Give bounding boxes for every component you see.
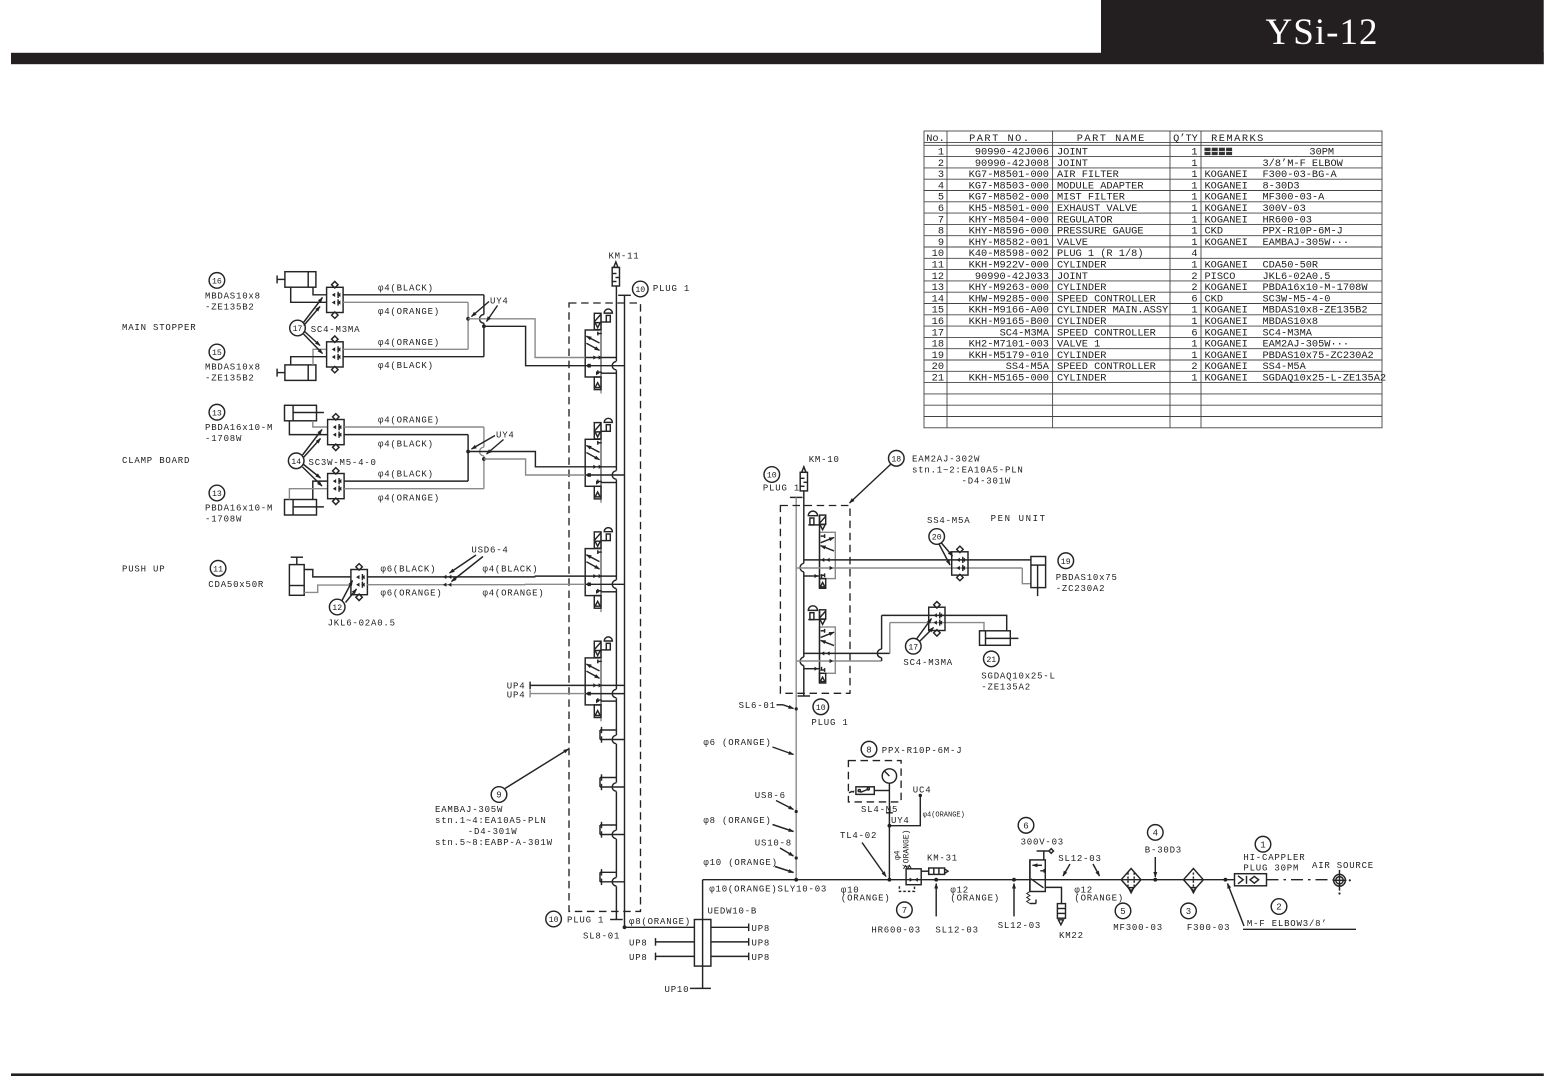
plug bottom of line 1	[610, 919, 623, 921]
svg-text:VALVE: VALVE	[1057, 237, 1088, 249]
wire cyl16 port A	[313, 287, 327, 295]
circled 15	[209, 344, 225, 360]
junction dot M-F elbow	[1224, 878, 1228, 882]
svg-text:stn.5~8:EABP-A-301W: stn.5~8:EABP-A-301W	[435, 838, 553, 848]
cylinder 16	[277, 272, 316, 288]
wire black bottom	[343, 356, 484, 358]
svg-text:4: 4	[1153, 829, 1158, 839]
svg-text:PPX-R10P-6M-J: PPX-R10P-6M-J	[882, 746, 963, 756]
svg-text:KM22: KM22	[1059, 931, 1084, 941]
svg-text:KOGANEI: KOGANEI	[1205, 305, 1248, 317]
svg-text:SC3W-M5-4-0: SC3W-M5-4-0	[309, 458, 377, 468]
svg-text:SL12-03: SL12-03	[998, 921, 1041, 931]
svg-text:-ZE135A2: -ZE135A2	[981, 683, 1031, 693]
svg-text:K40-M8598-002: K40-M8598-002	[969, 248, 1049, 260]
svg-text:JKL6-02A0.5: JKL6-02A0.5	[328, 618, 396, 628]
circled 10 top	[633, 281, 649, 297]
svg-text:KOGANEI: KOGANEI	[1205, 169, 1248, 181]
wire dash-dot to air source	[1267, 879, 1335, 881]
svg-text:10: 10	[549, 916, 559, 925]
svg-text:CKD: CKD	[1205, 293, 1224, 305]
header black title box	[1101, 0, 1544, 54]
wire UP8 right 3	[711, 955, 749, 957]
svg-text:No.: No.	[926, 133, 945, 145]
mist filter MF300-03	[1121, 869, 1141, 893]
svg-text:300V-03: 300V-03	[1263, 203, 1306, 215]
svg-text:3: 3	[1186, 907, 1191, 917]
svg-text:SC4-M3MA: SC4-M3MA	[311, 325, 361, 335]
SL12-03 marker 2	[1012, 878, 1016, 882]
wire: line 2 (plug header)	[624, 295, 626, 927]
cylinder 15	[277, 365, 316, 381]
svg-text:KH2-M7101-003: KH2-M7101-003	[969, 339, 1049, 351]
svg-text:3: 3	[938, 169, 944, 181]
svg-text:stn.1~2:EA10A5-PLN: stn.1~2:EA10A5-PLN	[912, 466, 1024, 476]
wire UP4 upper	[530, 684, 585, 686]
wire: valve 3 top port to supply line	[585, 575, 616, 577]
pressure switch	[849, 787, 874, 795]
wire cyl13a port A	[313, 421, 328, 427]
svg-text:M-F ELBOW3/8’: M-F ELBOW3/8’	[1247, 919, 1328, 929]
wire 8(ORANGE) SL8-01 to block	[625, 926, 695, 928]
svg-text:12: 12	[932, 271, 944, 283]
svg-text:φ4(ORANGE): φ4(ORANGE)	[923, 812, 965, 820]
svg-text:EAM2AJ-305W···: EAM2AJ-305W···	[1263, 339, 1350, 351]
svg-text:JOINT: JOINT	[1057, 271, 1088, 283]
wire black upper g2	[344, 434, 468, 436]
svg-text:UP8: UP8	[752, 924, 771, 934]
arrows 12 to controller	[342, 581, 353, 601]
wire: supply line 1 from KM-11 down	[615, 286, 617, 920]
svg-text:φ8(ORANGE): φ8(ORANGE)	[629, 917, 691, 927]
svg-text:CYLINDER: CYLINDER	[1057, 316, 1106, 328]
circled 12	[329, 599, 345, 615]
svg-text:1: 1	[1191, 180, 1197, 192]
svg-text:PLUG 1: PLUG 1	[763, 483, 800, 493]
svg-text:PPX-R10P-6M-J: PPX-R10P-6M-J	[1263, 226, 1343, 238]
svg-text:1: 1	[1260, 840, 1265, 850]
svg-text:KOGANEI: KOGANEI	[1205, 260, 1248, 272]
wire: valve 3 mid port through to plug header	[585, 583, 624, 585]
svg-text:17: 17	[932, 327, 944, 339]
circled 9	[491, 787, 507, 803]
svg-text:KG7-M8502-000: KG7-M8502-000	[969, 192, 1049, 204]
wire 6 ORANGE	[367, 584, 525, 586]
circled 17	[290, 320, 306, 336]
svg-text:1: 1	[1191, 226, 1197, 238]
wire UP4 lower	[530, 693, 585, 695]
wire cyl13b port B	[289, 489, 327, 500]
svg-text:SS4-M5A: SS4-M5A	[927, 516, 970, 526]
wire UP8 right 1	[711, 926, 749, 928]
svg-text:KKH-M922V-000: KKH-M922V-000	[969, 260, 1049, 272]
svg-text:SS4-M5A: SS4-M5A	[1006, 361, 1050, 373]
circled 19	[1058, 553, 1074, 569]
circled 21	[984, 651, 1000, 667]
svg-text:φ4(BLACK): φ4(BLACK)	[378, 283, 434, 293]
junction dot valve 2 mid	[587, 473, 591, 477]
svg-text:CDA50x50R: CDA50x50R	[208, 580, 264, 590]
wire: valve 1 bottom port	[601, 372, 616, 374]
svg-text:PLUG 1: PLUG 1	[567, 916, 604, 926]
junction dot valve 1 mid	[587, 364, 591, 368]
svg-text:3/8’M-F ELBOW: 3/8’M-F ELBOW	[1263, 158, 1344, 170]
speed controller 14a	[328, 414, 345, 451]
cylinder 19	[1031, 557, 1046, 597]
svg-text:KOGANEI: KOGANEI	[1205, 327, 1248, 339]
svg-text:6: 6	[1191, 327, 1197, 339]
svg-text:UP4: UP4	[507, 691, 526, 701]
svg-text:SPEED CONTROLLER: SPEED CONTROLLER	[1057, 327, 1156, 339]
wire black top (4BLACK)	[343, 294, 484, 296]
svg-text:KHY-M8582-001: KHY-M8582-001	[969, 237, 1049, 249]
junction dot UY4	[888, 824, 892, 828]
wire cyl11 port A	[304, 570, 351, 577]
svg-text:15: 15	[212, 349, 222, 358]
svg-text:KOGANEI: KOGANEI	[1205, 203, 1248, 215]
svg-text:KHY-M8596-000: KHY-M8596-000	[969, 226, 1049, 238]
wire: valve 1 top port to supply line	[585, 357, 616, 359]
svg-text:8: 8	[866, 745, 871, 755]
svg-text:6: 6	[1023, 821, 1028, 831]
svg-text:KOGANEI: KOGANEI	[1205, 339, 1248, 351]
plug top of line 2	[618, 294, 631, 296]
svg-text:20: 20	[932, 534, 942, 543]
svg-text:KOGANEI: KOGANEI	[1205, 180, 1248, 192]
svg-text:PBDAS10x75: PBDAS10x75	[1056, 573, 1118, 583]
svg-text:HR600-03: HR600-03	[871, 926, 921, 936]
svg-text:PBDA16x10-M: PBDA16x10-M	[205, 504, 273, 514]
svg-text:9: 9	[938, 237, 944, 249]
svg-text:KOGANEI: KOGANEI	[1205, 316, 1248, 328]
wire cyl13b port A	[313, 481, 328, 499]
circled 7	[897, 902, 913, 918]
svg-text:SGDAQ10x25-L: SGDAQ10x25-L	[981, 672, 1055, 682]
circled 10 (bottom plug)	[813, 699, 829, 715]
wire orange combined to valve2 mid	[484, 459, 585, 475]
svg-text:1: 1	[1191, 260, 1197, 272]
wire: valve 1 mid port through to plug header	[585, 365, 624, 367]
SL12-03 marker 1	[934, 878, 938, 882]
wire valve18-2 bottom port	[804, 668, 820, 670]
(1) hi-coupler	[1255, 836, 1271, 852]
svg-text:MF300-03-A: MF300-03-A	[1263, 192, 1326, 204]
svg-text:JOINT: JOINT	[1057, 147, 1088, 159]
svg-text:(ORANGE): (ORANGE)	[841, 894, 891, 904]
wire valve18-2 top port (black)	[804, 652, 890, 654]
svg-text:5: 5	[938, 192, 944, 204]
svg-text:Q’TY: Q’TY	[1173, 133, 1198, 145]
valve U4 (station 4)	[585, 637, 612, 722]
svg-text:10: 10	[932, 248, 944, 260]
black join vertical (hop at orange feed)	[483, 295, 485, 315]
KM22 silencer	[1045, 887, 1065, 924]
speed controller 12	[351, 564, 368, 601]
svg-text:CYLINDER MAIN.ASSY: CYLINDER MAIN.ASSY	[1057, 305, 1168, 317]
svg-text:1: 1	[1191, 214, 1197, 226]
orange join vertical g2 (hop)	[483, 427, 485, 447]
junction dot black	[482, 324, 486, 328]
svg-text:18: 18	[932, 339, 944, 351]
svg-text:8: 8	[938, 226, 944, 238]
svg-text:-ZC230A2: -ZC230A2	[1056, 584, 1106, 594]
svg-text:14: 14	[932, 293, 944, 305]
svg-text:KM-10: KM-10	[809, 455, 840, 465]
wire: valve 4 bottom port	[601, 700, 616, 702]
svg-text:16: 16	[932, 316, 944, 328]
svg-text:KOGANEI: KOGANEI	[1205, 214, 1248, 226]
svg-text:8-30D3: 8-30D3	[1263, 180, 1300, 192]
svg-text:USD6-4: USD6-4	[471, 545, 508, 555]
svg-text:TL4-02: TL4-02	[840, 831, 877, 841]
svg-text:1: 1	[1191, 350, 1197, 362]
svg-text:UY4: UY4	[490, 297, 509, 307]
wire upper black to cylinder 21	[882, 615, 1007, 630]
svg-text:MF300-03: MF300-03	[1113, 923, 1163, 933]
svg-text:CYLINDER: CYLINDER	[1057, 260, 1106, 272]
svg-text:KOGANEI: KOGANEI	[1205, 361, 1248, 373]
svg-text:PLUG 1: PLUG 1	[653, 284, 690, 294]
svg-text:φ4: φ4	[894, 850, 903, 860]
svg-text:SC4-M3MA: SC4-M3MA	[903, 658, 953, 668]
wire UP8 left 1	[656, 941, 695, 943]
svg-text:UP8: UP8	[752, 953, 771, 963]
svg-text:SPEED CONTROLLER: SPEED CONTROLLER	[1057, 293, 1156, 305]
svg-text:9: 9	[496, 791, 501, 801]
arrows 17 to controllers	[304, 298, 323, 323]
svg-text:10: 10	[635, 286, 645, 295]
svg-text:1: 1	[938, 147, 944, 159]
svg-text:PEN UNIT: PEN UNIT	[991, 514, 1047, 524]
svg-text:US8-6: US8-6	[755, 791, 786, 801]
svg-text:-ZE135B2: -ZE135B2	[205, 303, 255, 313]
svg-text:PRESSURE GAUGE: PRESSURE GAUGE	[1057, 226, 1144, 238]
gauge dashed box	[848, 761, 901, 802]
svg-text:PBDAS10x75-ZC230A2: PBDAS10x75-ZC230A2	[1263, 350, 1374, 362]
svg-text:SL12-03: SL12-03	[935, 926, 978, 936]
svg-text:φ4(BLACK): φ4(BLACK)	[378, 361, 434, 371]
junction dot orange	[466, 317, 470, 321]
svg-text:CKD: CKD	[1205, 226, 1224, 238]
KM-10 dashed box	[780, 506, 850, 694]
circled 10 bottom-left	[546, 911, 562, 927]
blank station 5	[600, 727, 625, 744]
KM-31 bleed	[921, 868, 948, 874]
wire main line	[703, 879, 1235, 881]
circled 18	[889, 451, 905, 467]
parts table	[924, 131, 1386, 428]
arrow 9 to manifold box	[505, 749, 569, 789]
svg-text:φ10(ORANGE)SLY10-03: φ10(ORANGE)SLY10-03	[709, 885, 827, 895]
wire UY4 branch to UC4	[889, 796, 920, 826]
svg-text:11: 11	[213, 565, 223, 574]
svg-text:PLUG 30PM: PLUG 30PM	[1243, 864, 1299, 874]
arrows 14 to controllers	[303, 430, 323, 456]
exhaust valve 300V-03	[1027, 849, 1054, 904]
wire black combined to valve2 top	[468, 452, 585, 467]
svg-text:φ4(ORANGE): φ4(ORANGE)	[378, 416, 440, 426]
wire 6 BLACK	[367, 576, 535, 578]
svg-text:10: 10	[816, 704, 826, 713]
svg-text:17: 17	[908, 643, 918, 652]
svg-text:1: 1	[1191, 169, 1197, 181]
svg-text:φ4(ORANGE): φ4(ORANGE)	[378, 338, 440, 348]
svg-text:18: 18	[891, 455, 901, 464]
svg-text:PLUG 1: PLUG 1	[811, 718, 848, 728]
speed controller SS4-M5A (20)	[952, 546, 968, 581]
svg-text:F300-03-BG-A: F300-03-BG-A	[1263, 169, 1338, 181]
svg-text:φ6 (ORANGE): φ6 (ORANGE)	[703, 738, 771, 748]
svg-text:2: 2	[1191, 361, 1197, 373]
riser black to SC4 controller line (hop over top port)	[881, 615, 883, 649]
svg-text:EAMBAJ-305W···: EAMBAJ-305W···	[1263, 237, 1350, 249]
svg-text:KKH-M5165-000: KKH-M5165-000	[969, 373, 1049, 385]
svg-text:(ORANGE): (ORANGE)	[1074, 894, 1124, 904]
wire valve18-1 top port (black) to pen unit	[804, 559, 1031, 561]
svg-text:HR600-03: HR600-03	[1263, 214, 1312, 226]
svg-text:PART NAME: PART NAME	[1077, 133, 1146, 145]
svg-text:11: 11	[932, 260, 944, 272]
circled 11	[210, 561, 226, 577]
wire black lower g2	[344, 480, 468, 482]
svg-text:SC4-M3MA: SC4-M3MA	[1263, 327, 1313, 339]
svg-text:PISCO: PISCO	[1205, 271, 1236, 283]
UEDW10-B block	[694, 920, 711, 967]
svg-text:19: 19	[932, 350, 944, 362]
svg-text:SGDAQ10x25-L-ZE135A2: SGDAQ10x25-L-ZE135A2	[1263, 373, 1387, 385]
circled 16	[209, 273, 225, 289]
USD6-4 fittings	[443, 575, 446, 579]
wire orange top (4ORANGE)	[343, 301, 468, 303]
wire hop on line1 at valve 1	[614, 361, 619, 370]
cylinder 13b	[285, 500, 324, 516]
svg-text:MIST FILTER: MIST FILTER	[1057, 192, 1125, 204]
svg-text:KM-11: KM-11	[608, 252, 639, 262]
corner dot line2	[623, 925, 627, 929]
svg-text:φ4(BLACK): φ4(BLACK)	[378, 470, 434, 480]
circled 5	[1115, 903, 1131, 919]
svg-text:SPEED CONTROLLER: SPEED CONTROLLER	[1057, 361, 1156, 373]
speed controller 17b	[327, 336, 344, 373]
svg-text:φ8 (ORANGE): φ8 (ORANGE)	[703, 816, 771, 826]
wire hop on line1 at valve 2	[614, 471, 619, 480]
svg-text:-1708W: -1708W	[205, 434, 242, 444]
wire into valve3 top	[535, 575, 585, 578]
svg-text:KOGANEI: KOGANEI	[1205, 350, 1248, 362]
(2) M-F elbow callout	[1271, 899, 1287, 915]
svg-text:CYLINDER: CYLINDER	[1057, 350, 1106, 362]
svg-text:EXHAUST VALVE: EXHAUST VALVE	[1057, 203, 1137, 215]
svg-text:1: 1	[1191, 147, 1197, 159]
svg-text:1: 1	[1191, 316, 1197, 328]
wire gauge drop	[888, 783, 890, 880]
circled 10 (KM-10 plug)	[764, 467, 780, 483]
wire black combined to valve1 mid	[484, 326, 585, 365]
svg-text:HI-CAPPLER: HI-CAPPLER	[1243, 853, 1305, 863]
svg-text:CYLINDER: CYLINDER	[1057, 373, 1106, 385]
circled 13 upper	[209, 404, 225, 420]
wire into valve3 mid	[526, 583, 586, 585]
blank station 8	[600, 869, 625, 886]
svg-text:14: 14	[291, 458, 301, 467]
valve 18-1 (station 1)	[808, 511, 835, 588]
svg-text:MBDAS10x8: MBDAS10x8	[1263, 316, 1319, 328]
svg-text:20: 20	[932, 361, 944, 373]
svg-text:B-30D3: B-30D3	[1145, 845, 1182, 855]
wire upper gray to cylinder 21	[890, 623, 984, 631]
wire: valve 4 top port to supply line	[585, 684, 624, 686]
KM-10 filter symbol	[800, 467, 807, 491]
svg-text:15: 15	[932, 305, 944, 317]
svg-text:KM-31: KM-31	[927, 854, 958, 864]
blank station 6	[600, 774, 625, 791]
svg-text:6: 6	[938, 203, 944, 215]
svg-text:SC3W-M5-4-0: SC3W-M5-4-0	[1263, 293, 1331, 305]
svg-text:UP8: UP8	[629, 953, 648, 963]
svg-text:21: 21	[932, 373, 944, 385]
circled 13 lower	[209, 485, 225, 501]
wire valve18-1 mid port (gray)	[796, 567, 1022, 569]
svg-text:(ORANGE): (ORANGE)	[950, 894, 1000, 904]
wire cyl15 port B	[291, 357, 327, 365]
svg-text:7: 7	[938, 214, 944, 226]
svg-text:MODULE ADAPTER: MODULE ADAPTER	[1057, 180, 1144, 192]
junction dot valve 4 mid	[587, 692, 591, 696]
valve U2 (station 2)	[585, 418, 612, 503]
junction dot orange g2	[482, 457, 486, 461]
svg-text:KH5-M8501-000: KH5-M8501-000	[969, 203, 1049, 215]
svg-text:-D4-301W: -D4-301W	[962, 477, 1012, 487]
svg-text:12: 12	[332, 604, 342, 613]
svg-text:φ4(BLACK): φ4(BLACK)	[483, 564, 539, 574]
plug top of SL6-01 line	[790, 496, 803, 498]
svg-text:φ4(ORANGE): φ4(ORANGE)	[483, 589, 545, 599]
wire orange combined to valve1 top	[468, 319, 585, 358]
cylinder 11	[289, 557, 304, 595]
svg-text:VALVE 1: VALVE 1	[1057, 339, 1100, 351]
svg-text:UY4: UY4	[496, 431, 515, 441]
wire orange top g2	[344, 426, 484, 428]
svg-text:KOGANEI: KOGANEI	[1205, 282, 1248, 294]
svg-text:6: 6	[1191, 293, 1197, 305]
arrow 18 to box	[850, 464, 892, 503]
svg-text:φ4(ORANGE): φ4(ORANGE)	[378, 494, 440, 504]
svg-text:1: 1	[1191, 203, 1197, 215]
junction dot TL4-02	[888, 878, 892, 882]
svg-text:90990-42J008: 90990-42J008	[975, 158, 1049, 170]
svg-text:1: 1	[1191, 305, 1197, 317]
riser gray	[889, 623, 891, 654]
junction dot valve 3 mid	[587, 582, 591, 586]
svg-text:CLAMP BOARD: CLAMP BOARD	[122, 456, 190, 466]
wire valve18-2 mid port (gray)	[796, 660, 881, 662]
svg-text:UC4: UC4	[913, 785, 932, 795]
wire hop on line1 at valve 4	[614, 689, 619, 698]
wire orange bottom	[343, 348, 468, 350]
svg-text:2: 2	[1191, 271, 1197, 283]
svg-text:(ORANGE): (ORANGE)	[903, 830, 912, 868]
circled 8	[861, 741, 877, 757]
svg-text:KHY-M9263-000: KHY-M9263-000	[969, 282, 1049, 294]
AIR SOURCE symbol	[1333, 870, 1351, 895]
svg-text:SS4-M5A: SS4-M5A	[1263, 361, 1307, 373]
svg-text:SC4-M3MA: SC4-M3MA	[1000, 327, 1050, 339]
wire hop on line1 at valve 3	[614, 580, 619, 589]
svg-text:PUSH UP: PUSH UP	[122, 565, 165, 575]
svg-text:2: 2	[1276, 903, 1281, 913]
svg-text:-ZE135B2: -ZE135B2	[205, 374, 255, 384]
svg-text:EAMBAJ-305W: EAMBAJ-305W	[435, 805, 503, 815]
